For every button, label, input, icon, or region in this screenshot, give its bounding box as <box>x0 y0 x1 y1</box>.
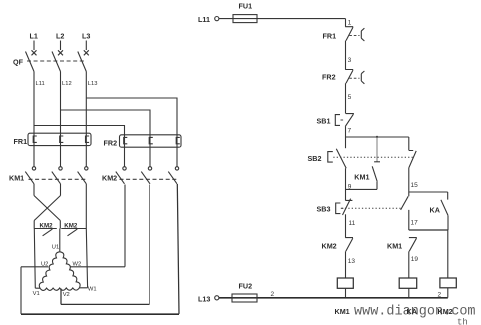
wire branch phase A to FR2 <box>34 126 125 167</box>
pin 19 <box>411 256 419 263</box>
svg-text:KM2: KM2 <box>438 307 453 316</box>
contact KM1 hold tick <box>374 161 380 163</box>
wire pin11 segment <box>345 214 347 237</box>
wire power bottom rail <box>21 313 179 315</box>
contact SB3 NO right <box>401 196 409 210</box>
wire hold branch return <box>346 182 378 190</box>
svg-text:L3: L3 <box>82 32 90 41</box>
pushbutton SB3 label <box>317 205 331 214</box>
coil KA <box>440 278 456 288</box>
wire branch phase C to FR2 <box>86 98 177 167</box>
thermal relay FR2 label <box>104 138 118 147</box>
wire V2 drop <box>60 289 62 305</box>
contact KM1 interlock label <box>387 242 402 251</box>
fuse FU2 body <box>232 294 257 302</box>
svg-text:L11: L11 <box>36 81 45 87</box>
wire pin13 to coil <box>345 251 347 278</box>
svg-text:L13: L13 <box>198 295 210 304</box>
wire KM1 pole3 down to row <box>85 184 87 229</box>
svg-text:KA: KA <box>430 206 440 215</box>
wire to motor V1 <box>34 229 40 289</box>
contactor KM2 pole 1 <box>116 167 126 184</box>
pin 9 <box>348 183 352 190</box>
pin 15 <box>411 182 419 189</box>
contactor KM1 pole 1 <box>25 167 35 184</box>
pin 17 <box>411 220 419 227</box>
wire L2 supply stub <box>60 41 62 51</box>
contactor KM1 label <box>9 174 24 183</box>
svg-text:KM2: KM2 <box>102 174 117 183</box>
terminal circle L13 <box>215 296 219 300</box>
svg-text:FU1: FU1 <box>239 2 253 11</box>
svg-text:1: 1 <box>348 20 352 27</box>
thermal contact FR1 <box>345 27 364 41</box>
svg-text:SB3: SB3 <box>317 205 331 214</box>
motor terminal label W2 <box>73 262 82 268</box>
wire KM1 pole1 down <box>33 184 35 196</box>
motor terminal label U1 <box>52 244 59 250</box>
svg-text:KM1: KM1 <box>387 242 402 251</box>
coil label KM1 <box>335 307 350 316</box>
node L2 <box>56 32 64 41</box>
motor terminal label W1 <box>88 287 97 293</box>
wire control bottom rail <box>219 297 448 299</box>
wire coil KM2 to rail <box>408 288 410 297</box>
svg-text:9: 9 <box>348 183 352 190</box>
breaker QF label <box>13 58 24 67</box>
pin 5 <box>348 94 352 101</box>
wire V2 riser to KM2 pole2 <box>149 185 151 305</box>
contact KM2 delta label left <box>40 222 54 229</box>
wire KA branch horizontal <box>409 191 448 193</box>
motor terminal label V1 <box>33 291 40 297</box>
contact KM2 delta blade left <box>43 229 53 236</box>
thermal relay FR1 body <box>28 133 91 145</box>
pushbutton SB1 label <box>317 117 331 126</box>
node L3 <box>82 32 90 41</box>
wire KA coil drop <box>447 230 449 278</box>
coil KM1 <box>337 278 353 288</box>
wire right riser KM2 pole3 to rail <box>177 184 179 314</box>
terminal x mark L2 <box>58 50 63 55</box>
pushbutton SB2 label <box>308 154 322 163</box>
contact KM1 interlock <box>409 238 417 252</box>
breaker QF pole 1 blade <box>26 52 35 72</box>
svg-text:SB1: SB1 <box>317 117 331 126</box>
motor terminal label U2 <box>41 262 48 268</box>
thermal relay FR1 label <box>14 137 28 146</box>
svg-text:QF: QF <box>13 58 24 67</box>
pin 3 <box>348 57 352 64</box>
svg-text:KM1: KM1 <box>354 173 369 182</box>
svg-text:KM1: KM1 <box>335 307 350 316</box>
contact SB2 NO right <box>409 151 416 168</box>
motor winding bottom side <box>40 288 79 291</box>
pushbutton SB3 NC <box>336 199 353 215</box>
svg-text:13: 13 <box>348 258 356 265</box>
svg-text:3: 3 <box>348 57 352 64</box>
linkage SB2 dotted <box>333 156 414 158</box>
svg-text:KM1: KM1 <box>9 174 24 183</box>
svg-text:SB2: SB2 <box>308 154 322 163</box>
contact KM2 delta label right <box>64 222 78 229</box>
node label L11 <box>36 81 45 87</box>
node L1 <box>30 32 38 41</box>
pushbutton SB2 NC <box>328 137 346 168</box>
fuse FU2 label <box>239 282 253 291</box>
breaker QF pole 2 blade <box>52 52 61 72</box>
svg-text:L1: L1 <box>30 32 38 41</box>
contactor KM2 linkage dashed <box>120 178 177 180</box>
wire KA branch stub <box>447 192 449 200</box>
wire SB3NO gap segment <box>408 192 410 230</box>
wire V2 horizontal run <box>61 303 150 305</box>
svg-text:FR1: FR1 <box>323 32 337 41</box>
contact KM1 hold label <box>354 173 369 182</box>
watermark diangon <box>354 305 476 320</box>
contact KM2 interlock <box>345 238 353 252</box>
svg-text:KA: KA <box>407 307 417 316</box>
wire branch phase B to FR2 <box>61 110 151 167</box>
wire lower cross horizontal <box>409 229 448 231</box>
breaker QF linkage dashed <box>27 60 86 62</box>
contactor KM2 pole 2 <box>141 167 151 184</box>
node label L12 <box>62 81 72 87</box>
svg-text:19: 19 <box>411 256 419 263</box>
relay contact KA label <box>430 206 440 215</box>
wire phase B QF to FR1 <box>60 72 62 167</box>
wire pin7 segment <box>345 127 347 137</box>
linkage SB3 dotted <box>342 207 401 209</box>
wire coil KM1 to rail <box>345 288 347 297</box>
contact KM1 hold blade <box>372 166 377 181</box>
wire phase A QF to FR1 <box>33 72 35 167</box>
pin 2 after FU2 <box>271 291 275 298</box>
wire L1 supply stub <box>33 41 35 51</box>
terminal circle L11 <box>215 17 219 21</box>
fuse FU1 body <box>233 15 257 23</box>
wire KM1 pole2 down <box>60 184 62 196</box>
svg-text:FR2: FR2 <box>322 73 336 82</box>
pin 2 coil KA <box>438 291 442 298</box>
coil label KM2 <box>438 307 453 316</box>
svg-text:W1: W1 <box>88 287 97 293</box>
wire pin3 to pin5 <box>345 83 347 113</box>
contact row KM2 delta segments <box>34 228 86 230</box>
node L11 control <box>198 15 210 24</box>
contactor KM1 linkage dashed <box>29 178 87 180</box>
wire U1 drop to motor apex <box>59 229 61 252</box>
svg-text:V1: V1 <box>33 291 40 297</box>
relay contact KA blade <box>441 200 448 216</box>
svg-text:V2: V2 <box>63 292 70 298</box>
svg-text:FU2: FU2 <box>239 282 253 291</box>
pin 7 <box>348 128 352 135</box>
svg-text:11: 11 <box>349 220 356 227</box>
svg-text:FR2: FR2 <box>104 138 118 147</box>
wire coil KA to rail <box>447 288 449 298</box>
wire to motor W1 <box>79 229 87 288</box>
terminal x mark L3 <box>84 50 89 55</box>
wire SB2NO to pin15 <box>408 168 410 192</box>
wire pin19 to coil <box>408 251 410 278</box>
wire L3 supply stub <box>85 41 87 51</box>
thermal contact FR2 <box>345 70 364 84</box>
wire U2 to left riser <box>21 266 48 268</box>
junction hold branch <box>376 136 378 138</box>
node L13 control <box>198 295 210 304</box>
pin 11 <box>349 220 356 227</box>
wire pin1 to pin3 <box>345 41 347 70</box>
motor winding left side <box>39 252 60 288</box>
wire right branch drop <box>408 137 410 150</box>
svg-text:7: 7 <box>348 128 352 135</box>
wire KA to lower junction <box>447 215 449 230</box>
node label L13 <box>88 81 98 87</box>
pushbutton SB1 <box>335 114 354 127</box>
motor winding right side <box>60 252 80 288</box>
wire L11 top feed <box>219 18 346 20</box>
breaker QF pole 3 blade <box>78 52 87 72</box>
pin 13 <box>348 258 356 265</box>
wire SB2 to pin9 <box>345 168 347 200</box>
wire control main drop <box>345 19 347 27</box>
svg-text:U1: U1 <box>52 244 59 250</box>
coil label KA <box>407 307 417 316</box>
svg-text:FR1: FR1 <box>14 137 28 146</box>
fuse FU1 label <box>239 2 253 11</box>
coil KM2 <box>399 278 417 288</box>
contactor KM2 label <box>102 174 117 183</box>
svg-text:KM2: KM2 <box>322 242 337 251</box>
svg-text:L12: L12 <box>62 81 72 87</box>
contact KM2 delta blade right <box>68 229 78 236</box>
terminal x mark L1 <box>32 50 37 55</box>
contact KM2 interlock label <box>322 242 337 251</box>
wire W2 to KM2 pole1 <box>70 185 125 267</box>
svg-text:2: 2 <box>271 291 275 298</box>
motor terminal label V2 <box>63 292 70 298</box>
thermal relay FR2 body <box>120 135 182 147</box>
contactor KM2 pole 3 <box>168 167 178 184</box>
svg-text:L11: L11 <box>198 15 210 24</box>
svg-text:L2: L2 <box>56 32 64 41</box>
svg-text:L13: L13 <box>88 81 98 87</box>
contactor KM1 pole 2 <box>52 167 62 184</box>
svg-text:5: 5 <box>348 94 352 101</box>
svg-text:17: 17 <box>411 220 419 227</box>
wire left riser down <box>20 267 22 314</box>
thermal contact FR2 label <box>322 73 336 82</box>
wire top branch horizontal <box>346 136 409 138</box>
wire phase C QF to FR1 <box>85 72 87 167</box>
svg-text:15: 15 <box>411 182 419 189</box>
watermark fragment <box>457 318 468 325</box>
thermal contact FR1 label <box>323 32 337 41</box>
wire crossover A-B <box>34 196 61 229</box>
wire hold branch drop <box>376 137 378 162</box>
pin 1 <box>348 20 352 27</box>
svg-text:th: th <box>457 318 468 325</box>
contactor KM1 pole 3 <box>78 167 88 184</box>
